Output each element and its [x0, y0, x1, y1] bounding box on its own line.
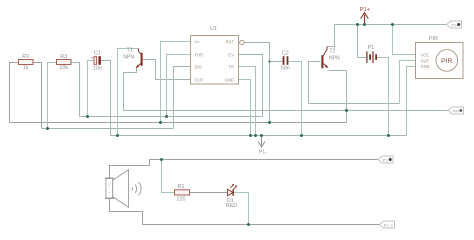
wire T2 base — [309, 62, 321, 104]
wire V+ bus — [10, 122, 347, 124]
svg-text:P1: P1 — [383, 158, 388, 162]
svg-text:OUT: OUT — [421, 58, 430, 63]
svg-text:R3: R3 — [60, 54, 67, 60]
svg-text:THR: THR — [195, 52, 204, 57]
node junction P1- symbol — [260, 134, 263, 137]
wire D1 cathode — [234, 193, 249, 225]
transistor T2 — [321, 47, 340, 69]
wire DIS bus — [42, 128, 174, 130]
svg-text:R2: R2 — [22, 54, 29, 60]
wire P1+ bus — [335, 24, 447, 26]
wire T1 base to U1 OUT — [143, 60, 191, 80]
wire battery positive — [358, 25, 367, 58]
svg-text:RED: RED — [226, 203, 237, 209]
svg-text:U1: U1 — [210, 26, 217, 32]
resistor R3 — [57, 54, 72, 71]
capacitor C1 — [91, 50, 102, 71]
wire U1 GND — [239, 80, 251, 136]
svg-text:C1: C1 — [94, 50, 101, 56]
wire R1 left — [162, 160, 175, 193]
svg-text:PIR: PIR — [429, 36, 438, 42]
wire R2 left — [10, 63, 19, 123]
svg-text:R1: R1 — [178, 184, 185, 190]
wire C1 left — [88, 61, 95, 117]
node junction PIR VCC drop — [391, 23, 394, 26]
wire PIR GND — [407, 67, 416, 136]
wire T2 base bus — [309, 103, 400, 105]
PIR sensor circle — [436, 50, 458, 72]
node junction U1 GND on P1- bus — [249, 134, 252, 137]
power symbol P1+ — [360, 7, 371, 25]
node junction R3 left on DIS bus — [46, 127, 49, 130]
node junction T2 emitter on bus — [345, 109, 348, 112]
svg-text:OUT: OUT — [195, 77, 204, 82]
node junction C2 left on RST wire — [268, 60, 270, 62]
svg-text:D1_C: D1_C — [384, 223, 394, 227]
node junction battery positive on P1+ bus — [356, 23, 359, 26]
diode D1 LED — [226, 184, 237, 209]
node junction R1 left on speaker bus — [160, 158, 163, 161]
svg-text:NPN: NPN — [329, 55, 340, 61]
node junction T1 collector on P1- bus — [116, 134, 119, 137]
wire battery negative — [377, 58, 389, 136]
node junction C1 left on THR bus — [86, 115, 89, 118]
node tag D1 C bottom right — [380, 221, 395, 228]
node junction U1 V+ drop — [159, 121, 162, 124]
node junction battery negative on P1- bus — [387, 134, 390, 137]
wire U1 TR — [239, 67, 256, 136]
node junction C2 right on P1- bus — [300, 134, 303, 137]
wire speaker bottom bus — [110, 199, 380, 225]
node junction P1+ arrow — [363, 23, 366, 26]
wire T1 collector — [118, 49, 139, 136]
wire U1 CV — [239, 55, 263, 117]
wire PIR OUT — [400, 61, 416, 104]
wire T2 emitter — [329, 71, 347, 123]
svg-text:T1: T1 — [127, 47, 133, 53]
power symbol P1- — [258, 136, 267, 156]
svg-text:P1: P1 — [368, 45, 375, 51]
battery P1 — [367, 45, 376, 63]
svg-text:NPN: NPN — [123, 55, 134, 61]
PIR module — [416, 36, 464, 78]
wire T1 emitter — [124, 67, 137, 111]
node junction RST drop — [268, 121, 271, 124]
svg-text:VCC: VCC — [421, 52, 430, 57]
svg-text:GND: GND — [225, 77, 234, 82]
resistor R1 — [175, 184, 190, 203]
node junction U1 TR on P1- bus — [254, 134, 257, 137]
svg-text:CV: CV — [228, 52, 234, 57]
svg-text:220: 220 — [177, 197, 186, 203]
node tag PIR OUT right — [448, 107, 464, 114]
capacitor C2 — [281, 50, 290, 71]
svg-text:10u: 10u — [93, 66, 102, 72]
svg-text:P1-: P1- — [259, 150, 267, 156]
svg-text:P1+: P1+ — [360, 7, 371, 13]
wire U1 THR — [167, 55, 191, 117]
svg-text:PIR: PIR — [453, 109, 460, 113]
pin RST inversion bubble — [240, 40, 244, 44]
wire C2 right — [289, 62, 302, 136]
wire C1 right — [101, 61, 111, 136]
wire U1 DIS — [174, 67, 191, 129]
wire R1 to D1 — [190, 192, 228, 194]
wire R3 left — [48, 63, 57, 129]
op-amp U1 555 IC body — [191, 26, 239, 84]
svg-text:50n: 50n — [281, 66, 290, 72]
svg-text:1k: 1k — [23, 65, 29, 71]
wire U1 RST — [244, 43, 269, 123]
svg-text:C2: C2 — [282, 50, 289, 56]
svg-text:~: ~ — [108, 190, 110, 194]
svg-text:RST: RST — [226, 39, 235, 44]
node tag P1+ right — [447, 21, 462, 28]
svg-text:10k: 10k — [59, 65, 68, 71]
wire THR bus — [80, 116, 263, 118]
wire T2 collector to P1+ — [327, 25, 335, 47]
svg-text:V+: V+ — [195, 39, 201, 44]
wire R3 right — [71, 63, 80, 117]
svg-text:DIS: DIS — [195, 64, 202, 69]
wire emitter bus — [124, 110, 449, 112]
svg-text:+: + — [108, 183, 110, 187]
speaker LS1 — [105, 170, 141, 208]
svg-text:TR: TR — [228, 64, 234, 69]
wire R2 right — [33, 63, 42, 129]
node tag P1 mid right — [378, 156, 393, 163]
wire speaker top bus — [110, 160, 379, 179]
svg-text:T2: T2 — [329, 48, 335, 54]
resistor R2 — [19, 54, 34, 71]
svg-text:PIR: PIR — [441, 58, 452, 65]
node junction D1 cathode on bottom bus — [247, 223, 250, 226]
wire C2 left — [270, 61, 283, 63]
svg-text:GND: GND — [421, 64, 430, 69]
wire U1 V+ — [161, 42, 191, 123]
wire P1- bus — [111, 135, 407, 137]
node junction THR drop — [165, 115, 168, 118]
transistor T1 — [123, 47, 142, 68]
wire PIR VCC — [393, 25, 416, 55]
